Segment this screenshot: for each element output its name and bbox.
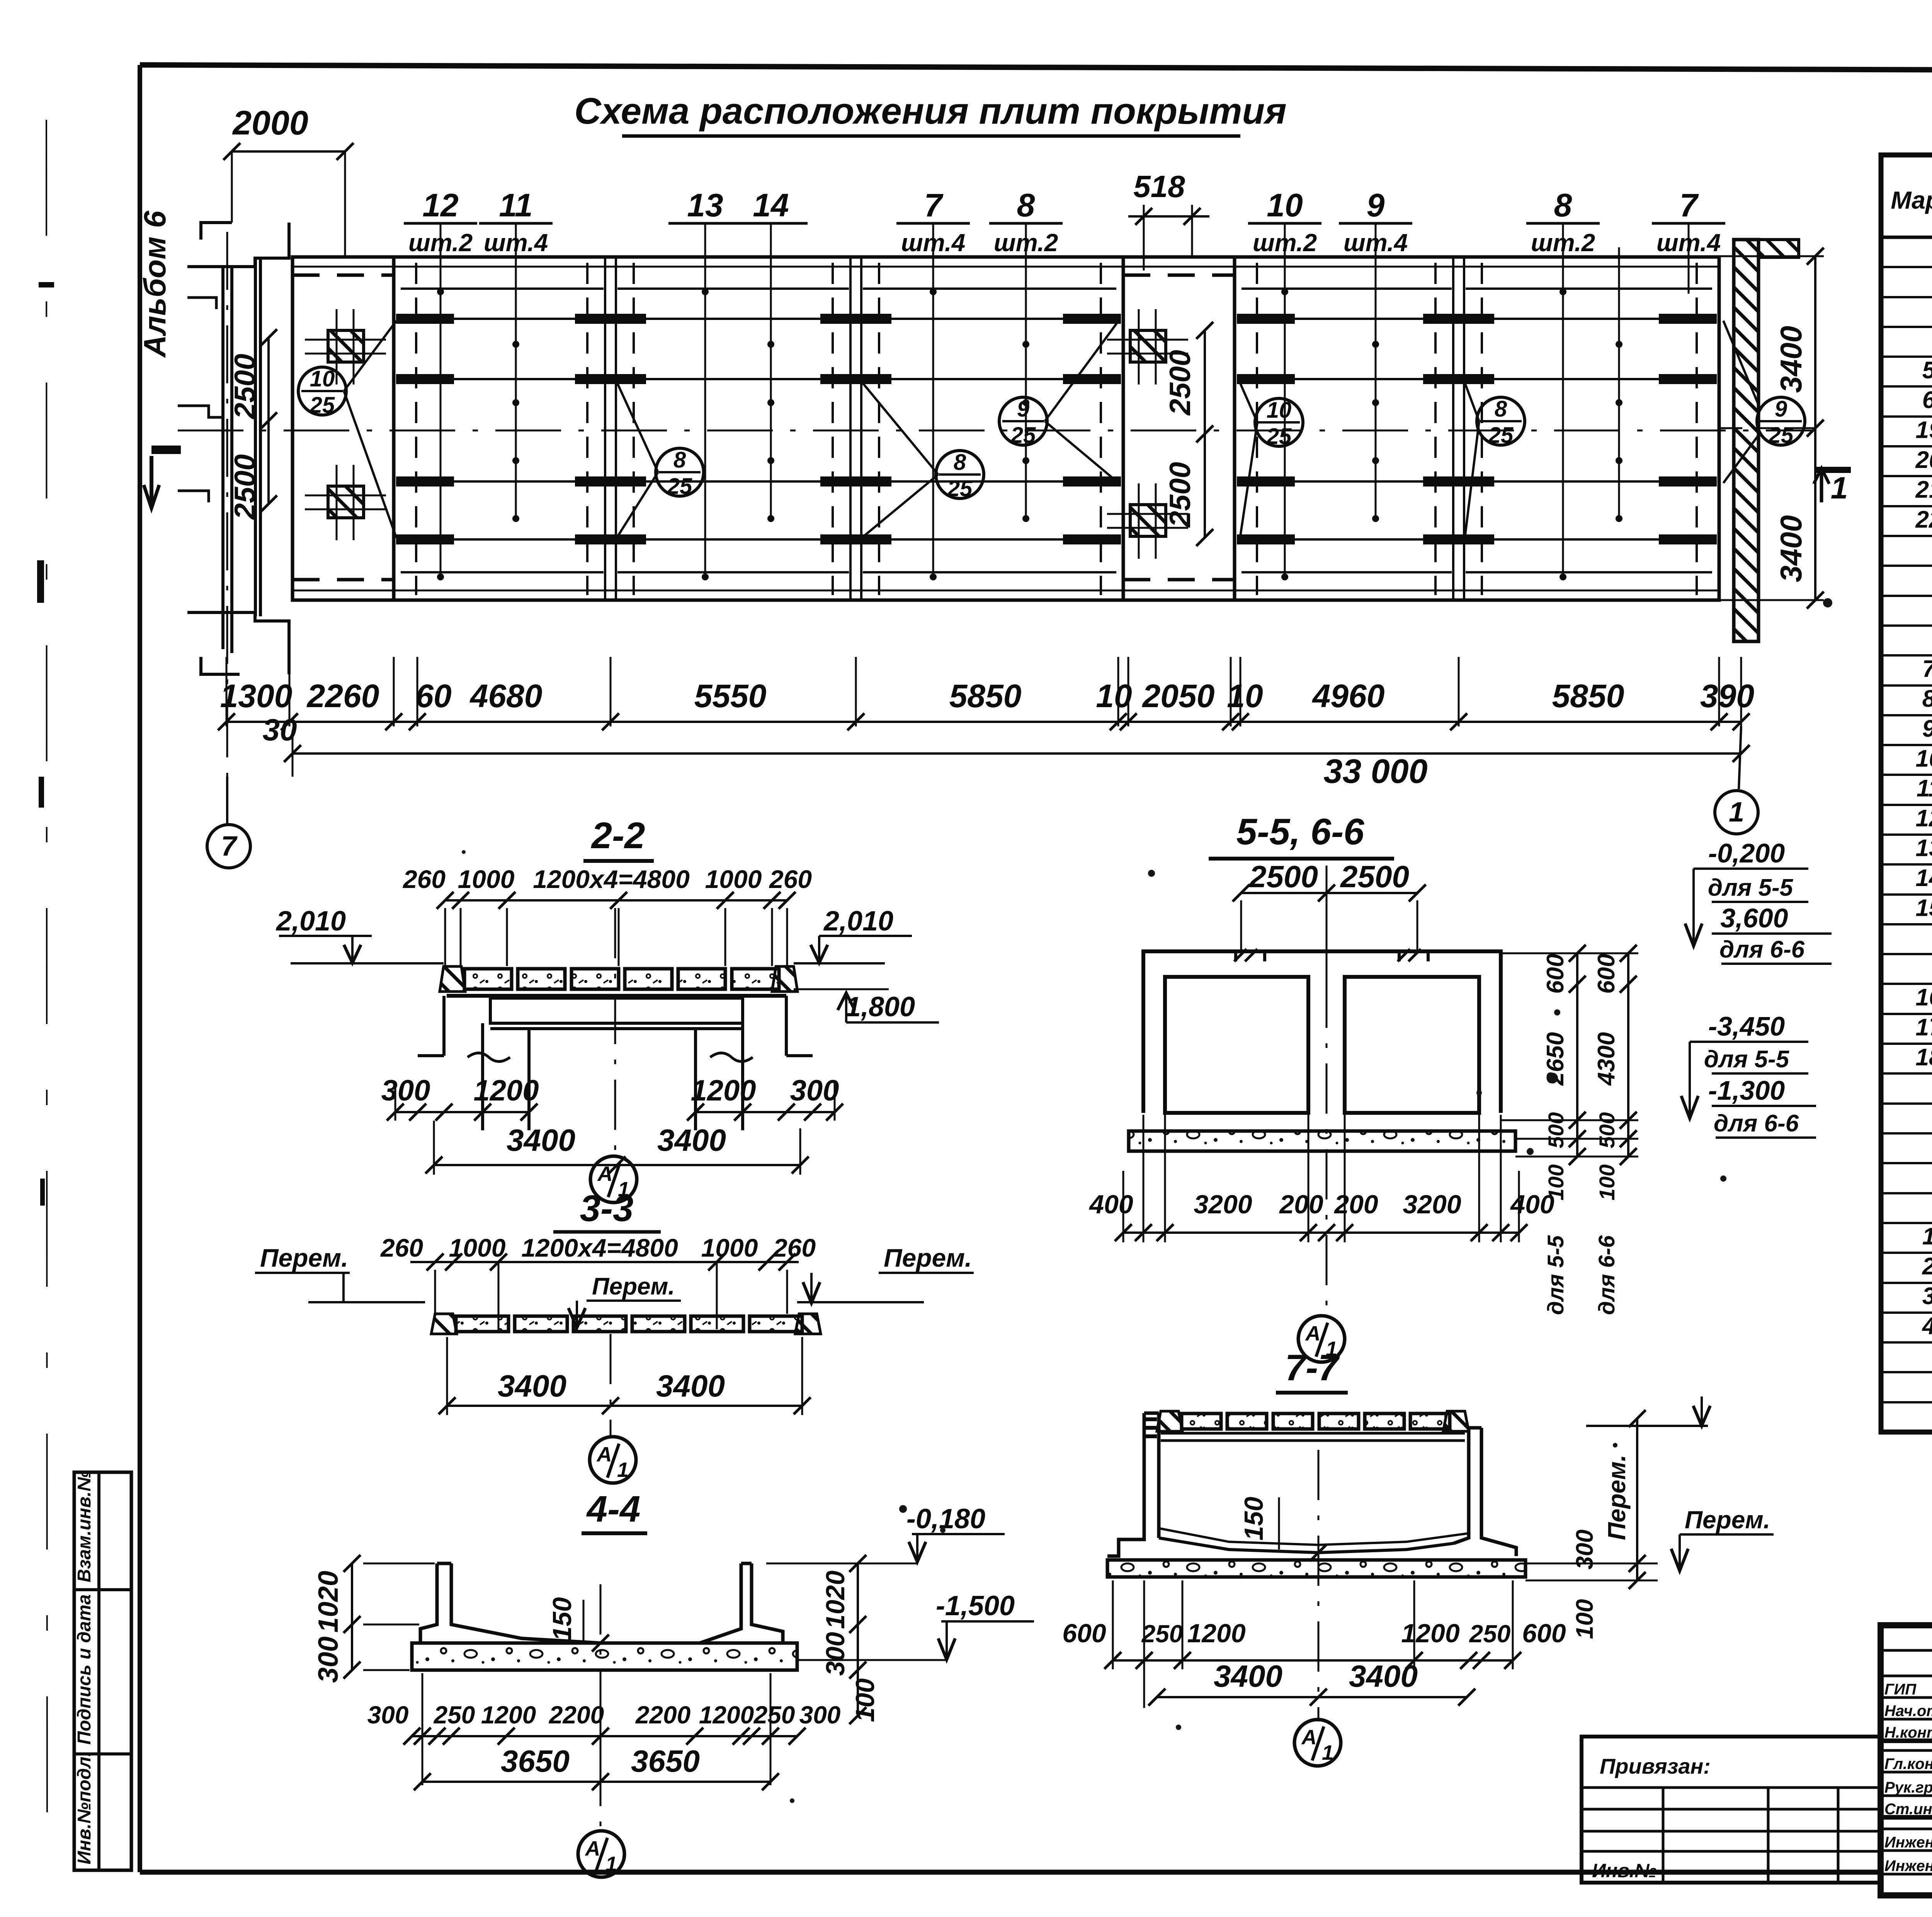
section 2-2 legs: [481, 1023, 484, 1130]
left paper edge marks: [39, 282, 54, 287]
svg-text:9: 9: [1775, 396, 1787, 422]
section 2-2 beam outline: [447, 994, 786, 998]
section 7-7 left wall: [1107, 1413, 1144, 1556]
section 3-3 plate strip: [431, 1314, 457, 1334]
svg-text:1200: 1200: [1187, 1619, 1245, 1648]
svg-text:1200: 1200: [473, 1074, 539, 1107]
svg-text:Марка: Марка: [1891, 186, 1932, 214]
svg-text:Схема расположения плит покрыт: Схема расположения плит покрытия: [574, 90, 1286, 132]
svg-text:10: 10: [1227, 678, 1263, 714]
svg-text:5850: 5850: [1552, 678, 1624, 714]
svg-text:Инв.№подл.: Инв.№подл.: [74, 1752, 95, 1864]
svg-text:1000: 1000: [458, 865, 515, 893]
svg-text:4300: 4300: [1593, 1032, 1620, 1086]
svg-text:2260: 2260: [306, 678, 379, 714]
svg-text:300: 300: [381, 1074, 430, 1107]
svg-text:-3,450: -3,450: [1708, 1011, 1785, 1041]
svg-text:3400: 3400: [1774, 515, 1808, 582]
svg-text:2500: 2500: [229, 354, 262, 420]
svg-text:2500: 2500: [1248, 859, 1318, 894]
svg-text:250: 250: [753, 1701, 795, 1729]
section 7-7 right vertical dim: [1636, 1419, 1638, 1580]
plan: middle tower: [1122, 257, 1125, 600]
svg-text:11: 11: [1917, 775, 1932, 802]
svg-text:1: 1: [1922, 1223, 1932, 1250]
svg-text:8: 8: [673, 447, 686, 473]
section 5-5 right dim columns: [1576, 953, 1578, 1157]
plan: total 33000 dim: [293, 752, 1741, 755]
svg-text:Перем.: Перем.: [1603, 1454, 1631, 1540]
spec table grid: [1881, 155, 1932, 1432]
svg-text:25: 25: [1010, 423, 1036, 448]
section 4-4 right vertical dims: [857, 1563, 859, 1624]
svg-text:для 5-5: для 5-5: [1708, 874, 1794, 901]
svg-text:12: 12: [422, 187, 458, 223]
svg-text:1,800: 1,800: [845, 992, 915, 1022]
svg-text:1300: 1300: [220, 678, 293, 714]
svg-text:2050: 2050: [1142, 678, 1215, 714]
svg-text:7: 7: [221, 831, 238, 862]
plan: band outline: [293, 257, 1719, 600]
svg-text:250: 250: [434, 1701, 475, 1729]
svg-text:300: 300: [790, 1074, 839, 1107]
svg-text:3,600: 3,600: [1720, 903, 1788, 933]
svg-text:260: 260: [772, 1233, 816, 1262]
svg-text:100: 100: [850, 1678, 880, 1722]
svg-text:2: 2: [1922, 1253, 1932, 1280]
svg-text:60: 60: [415, 678, 451, 714]
svg-text:Рук.гр.: Рук.гр.: [1884, 1779, 1932, 1796]
svg-text:Инв.№: Инв.№: [1592, 1860, 1657, 1881]
plan: marker circles with leaders: [298, 367, 346, 415]
svg-text:400: 400: [1510, 1190, 1554, 1219]
svg-text:300: 300: [1571, 1529, 1598, 1569]
svg-text:2500: 2500: [1164, 350, 1197, 416]
plan: section arrow 1 right: [1816, 467, 1851, 473]
svg-text:200: 200: [1279, 1190, 1323, 1219]
plan: plate edge lines in bays: [401, 287, 604, 290]
svg-text:600: 600: [1542, 954, 1569, 993]
svg-text:2500: 2500: [1340, 859, 1409, 894]
plan: right side 3400 dims: [1814, 256, 1816, 600]
section 4-4 centerline and axis: [600, 1584, 602, 1832]
svg-text:260: 260: [769, 865, 812, 893]
section 5-5 top joint details: [1234, 951, 1237, 966]
svg-text:3-3: 3-3: [580, 1188, 634, 1229]
margin stamp boxes: [74, 1472, 131, 1870]
plan: left existing wall outline: [187, 223, 289, 267]
svg-text:для 5-5: для 5-5: [1704, 1046, 1790, 1073]
svg-text:600: 600: [1522, 1619, 1566, 1648]
svg-text:100: 100: [1595, 1164, 1619, 1200]
svg-text:1200х4=4800: 1200х4=4800: [521, 1233, 678, 1262]
svg-text:13: 13: [1916, 835, 1932, 862]
section 7-7 top plate strip: [1157, 1411, 1182, 1431]
svg-text:1200х4=4800: 1200х4=4800: [533, 865, 690, 893]
section 7-7 top level arrow: [1586, 1425, 1708, 1427]
title block outer: [1881, 1625, 1932, 1895]
svg-text:22: 22: [1915, 506, 1932, 533]
svg-text:20: 20: [1915, 447, 1932, 473]
svg-text:10: 10: [1096, 678, 1132, 714]
svg-text:3400: 3400: [1774, 326, 1808, 393]
svg-text:5-5, 6-6: 5-5, 6-6: [1236, 811, 1364, 852]
section 7-7 centerline and axis: [1318, 1450, 1320, 1721]
svg-text:Привязан:: Привязан:: [1600, 1754, 1711, 1778]
svg-text:1200: 1200: [1401, 1619, 1459, 1648]
plan: axis circle 1: [1715, 791, 1758, 834]
svg-text:12: 12: [1916, 805, 1932, 832]
svg-text:400: 400: [1088, 1190, 1133, 1219]
svg-text:2200: 2200: [549, 1701, 604, 1729]
svg-text:8: 8: [1922, 685, 1932, 712]
plan: wall centerline: [226, 232, 228, 819]
svg-text:Перем.: Перем.: [260, 1243, 348, 1272]
svg-text:11: 11: [499, 187, 532, 223]
svg-text:8: 8: [1017, 187, 1035, 223]
plan: right end wall hatched: [1734, 240, 1759, 641]
svg-text:-1,300: -1,300: [1708, 1075, 1785, 1106]
plan: axis circle 7: [207, 825, 250, 868]
svg-text:25: 25: [1488, 423, 1514, 448]
svg-text:3400: 3400: [1214, 1659, 1282, 1693]
svg-text:300: 300: [367, 1701, 409, 1729]
scan noise specks: [1547, 1073, 1558, 1084]
section 5-5 centerline and axis: [1326, 978, 1328, 1317]
svg-text:5: 5: [1922, 357, 1932, 384]
svg-text:600: 600: [1062, 1619, 1106, 1648]
svg-text:А: А: [597, 1162, 613, 1186]
paper edge line left: [46, 120, 47, 1843]
svg-text:1200: 1200: [690, 1074, 756, 1107]
svg-text:300: 300: [799, 1701, 841, 1729]
svg-text:1020: 1020: [313, 1571, 344, 1633]
svg-text:150: 150: [548, 1597, 577, 1641]
title block signature rows: [1881, 1649, 1932, 1652]
svg-text:для 6-6: для 6-6: [1714, 1110, 1799, 1137]
svg-text:5550: 5550: [694, 678, 767, 714]
svg-text:15: 15: [1916, 895, 1932, 921]
svg-text:для 6-6: для 6-6: [1594, 1235, 1619, 1315]
svg-text:2500: 2500: [1164, 462, 1197, 528]
svg-text:2200: 2200: [635, 1701, 690, 1729]
section 7-7 right wall: [1454, 1428, 1469, 1543]
svg-text:1000: 1000: [705, 865, 762, 893]
svg-text:3400: 3400: [507, 1123, 575, 1157]
section 4-4 base slab: [412, 1643, 797, 1670]
section 4-4 walls: [420, 1563, 437, 1643]
svg-text:518: 518: [1133, 169, 1185, 204]
plan: axis centerline: [178, 430, 1816, 432]
svg-text:3: 3: [1922, 1283, 1932, 1310]
svg-text:3650: 3650: [501, 1744, 570, 1778]
svg-text:А: А: [1305, 1322, 1321, 1345]
svg-text:500: 500: [1595, 1112, 1619, 1148]
svg-text:Нач.отд.: Нач.отд.: [1884, 1703, 1932, 1720]
svg-text:1: 1: [1322, 1741, 1333, 1764]
svg-text:А: А: [585, 1837, 600, 1860]
plan: bottom dimension row A: [226, 657, 228, 726]
svg-text:4-4: 4-4: [586, 1488, 641, 1530]
svg-text:3200: 3200: [1403, 1190, 1461, 1219]
svg-text:5850: 5850: [949, 678, 1022, 714]
svg-text:-0,180: -0,180: [906, 1504, 985, 1534]
svg-text:2,010: 2,010: [276, 906, 346, 937]
svg-text:250: 250: [1469, 1620, 1511, 1648]
svg-text:18: 18: [1916, 1044, 1932, 1071]
svg-text:Перем.: Перем.: [1685, 1506, 1770, 1534]
plan: hatched column details middle tower: [1130, 330, 1166, 362]
section 5-5 openings: [1165, 977, 1308, 1113]
svg-text:14: 14: [753, 187, 789, 223]
svg-text:25: 25: [1768, 423, 1794, 448]
svg-text:390: 390: [1700, 678, 1754, 714]
svg-text:260: 260: [380, 1233, 423, 1262]
svg-text:Инженер: Инженер: [1884, 1834, 1932, 1851]
svg-text:Инженер: Инженер: [1884, 1857, 1932, 1874]
svg-text:200: 200: [1333, 1190, 1378, 1219]
plan: left block tower: [392, 257, 396, 600]
svg-text:Перем.: Перем.: [592, 1273, 675, 1300]
svg-text:ГИП: ГИП: [1884, 1681, 1917, 1698]
svg-text:25: 25: [310, 393, 335, 418]
svg-text:21: 21: [1915, 476, 1932, 503]
svg-text:100: 100: [1571, 1599, 1598, 1639]
svg-text:8: 8: [1495, 396, 1507, 422]
svg-text:8: 8: [954, 450, 966, 475]
svg-text:1200: 1200: [481, 1701, 536, 1729]
svg-text:2500: 2500: [229, 454, 262, 520]
svg-text:Альбом 6: Альбом 6: [138, 211, 172, 358]
svg-text:7: 7: [1922, 656, 1932, 682]
svg-text:для 5-5: для 5-5: [1543, 1235, 1568, 1315]
svg-text:600: 600: [1593, 954, 1620, 993]
svg-text:1: 1: [1729, 797, 1744, 828]
svg-text:2,010: 2,010: [823, 906, 893, 937]
svg-text:Ст.инж.: Ст.инж.: [1884, 1801, 1932, 1818]
section 5-5 bottom slab: [1129, 1131, 1515, 1151]
plan: 2500 dims middle tower: [1204, 330, 1206, 538]
section 4-4 1020 300 dims left: [351, 1563, 353, 1624]
svg-text:1: 1: [605, 1852, 617, 1876]
svg-text:7: 7: [1680, 187, 1699, 223]
svg-text:10: 10: [1916, 745, 1932, 772]
svg-text:3650: 3650: [631, 1744, 700, 1778]
svg-text:3400: 3400: [498, 1369, 566, 1403]
section 5-5 portal outline: [1143, 951, 1501, 1113]
svg-text:10: 10: [1267, 398, 1292, 423]
svg-text:Н.контр: Н.контр: [1884, 1724, 1932, 1741]
svg-text:250: 250: [1141, 1620, 1183, 1648]
svg-text:3400: 3400: [656, 1369, 725, 1403]
plan: hatched column details left block: [328, 330, 364, 362]
svg-text:500: 500: [1544, 1112, 1568, 1148]
svg-text:А: А: [596, 1443, 612, 1466]
svg-text:2000: 2000: [232, 104, 308, 142]
svg-text:Взам.инв.№: Взам.инв.№: [74, 1470, 95, 1582]
plan: bay boundary joints: [604, 257, 606, 600]
svg-text:260: 260: [402, 865, 446, 893]
svg-text:9: 9: [1922, 715, 1932, 742]
svg-text:1020: 1020: [821, 1570, 850, 1629]
svg-text:4: 4: [1922, 1313, 1932, 1339]
sheet frame: [140, 65, 1932, 72]
svg-text:7: 7: [924, 187, 944, 223]
svg-text:2-2: 2-2: [591, 815, 645, 856]
section 7-7 trough camber: [1159, 1538, 1454, 1553]
svg-text:14: 14: [1916, 865, 1932, 891]
svg-text:33 000: 33 000: [1323, 752, 1427, 790]
svg-text:13: 13: [687, 187, 723, 223]
privyazan table: [1582, 1737, 1881, 1883]
svg-text:-0,200: -0,200: [1708, 838, 1785, 868]
plan: joints at towers and ends: [415, 263, 417, 595]
svg-text:Подпись и дата: Подпись и дата: [74, 1594, 95, 1745]
svg-text:17: 17: [1916, 1014, 1932, 1041]
svg-text:-1,500: -1,500: [936, 1590, 1015, 1621]
svg-text:25: 25: [1266, 424, 1292, 449]
svg-text:4680: 4680: [469, 678, 543, 714]
plan: 2500 dims left block: [267, 338, 270, 504]
svg-text:6: 6: [1922, 387, 1932, 413]
section 3-3 centerline and axis: [610, 1334, 612, 1437]
svg-text:25: 25: [947, 476, 973, 501]
svg-text:150: 150: [1239, 1497, 1269, 1541]
svg-text:7-7: 7-7: [1285, 1347, 1340, 1388]
svg-text:Перем.: Перем.: [884, 1243, 972, 1272]
section 2-2 plate strip: [440, 966, 465, 992]
svg-text:3400: 3400: [1349, 1659, 1418, 1693]
svg-text:19: 19: [1916, 417, 1932, 443]
svg-text:9: 9: [1367, 187, 1385, 223]
svg-text:300: 300: [821, 1632, 850, 1676]
section 2-2 centerline and axis: [614, 908, 616, 1155]
svg-text:1200: 1200: [699, 1701, 754, 1729]
section 7-7 base slab: [1107, 1560, 1526, 1577]
svg-text:8: 8: [1554, 187, 1572, 223]
svg-text:10: 10: [310, 366, 335, 391]
plan: lifting point dots: [440, 240, 442, 578]
svg-text:1: 1: [617, 1458, 629, 1482]
svg-text:4960: 4960: [1312, 678, 1385, 714]
svg-text:А: А: [1301, 1726, 1317, 1749]
svg-text:10: 10: [1267, 187, 1303, 223]
svg-text:1: 1: [1831, 471, 1848, 505]
plan: section cut mark left: [151, 446, 181, 454]
svg-text:для 6-6: для 6-6: [1719, 936, 1805, 963]
svg-text:16: 16: [1916, 984, 1932, 1011]
svg-text:1000: 1000: [701, 1233, 758, 1262]
svg-text:3200: 3200: [1194, 1190, 1252, 1219]
svg-text:Гл.констр.: Гл.констр.: [1884, 1755, 1932, 1772]
svg-text:300: 300: [313, 1636, 344, 1683]
svg-text:25: 25: [667, 474, 692, 499]
svg-text:3400: 3400: [657, 1123, 726, 1157]
